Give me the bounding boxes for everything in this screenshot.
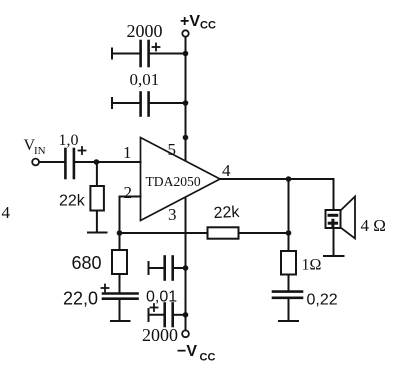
wire output node down to R3: [288, 179, 290, 251]
svg-text:CC: CC: [200, 20, 216, 32]
value 0,01: [146, 289, 177, 306]
svg-text:1: 1: [123, 143, 132, 162]
svg-text:22k: 22k: [59, 193, 86, 210]
value 22k: [59, 193, 86, 210]
wire C3 to pin1: [75, 161, 141, 163]
wire feedback right segment: [239, 232, 289, 234]
node junction dot rail/C6: [183, 265, 189, 271]
svg-text:−V: −V: [177, 343, 197, 360]
capacitor C6 0,01 (bottom): [149, 257, 186, 280]
net label -Vcc: [177, 343, 215, 364]
node junction dot output: [286, 176, 292, 182]
svg-text:0,22: 0,22: [307, 292, 338, 309]
value 0,01: [130, 70, 160, 89]
value 2000: [127, 21, 163, 41]
capacitor C5 22,0: [102, 285, 138, 321]
svg-text:+V: +V: [180, 13, 200, 30]
svg-text:680: 680: [72, 253, 102, 273]
pin 2 label: [124, 183, 133, 202]
node junction dot rail/C1: [183, 51, 189, 57]
node +Vcc terminal: [182, 30, 188, 36]
wire speaker to ground: [333, 228, 335, 256]
node junction dot input: [94, 159, 100, 165]
svg-text:IN: IN: [34, 145, 46, 157]
value 1 Ohm: [302, 257, 322, 274]
svg-text:3: 3: [168, 205, 177, 224]
speaker LS1: [326, 197, 356, 239]
stray page digit 4: [2, 203, 11, 222]
net label Vin: [24, 137, 46, 157]
resistor R2 22k (feedback): [208, 227, 239, 238]
value 680: [72, 253, 102, 273]
op-amp U1 TDA2050: [141, 138, 221, 221]
node Vin terminal: [32, 159, 39, 166]
svg-text:4: 4: [2, 203, 11, 222]
value 4 Ohm: [361, 216, 386, 235]
wire output down to speaker: [333, 179, 335, 210]
node junction dot rail/C7: [183, 312, 189, 318]
value 2000: [142, 325, 178, 345]
resistor R4 680: [112, 233, 127, 294]
capacitor C1 2000 (top electrolytic): [112, 41, 186, 66]
node junction dot feedback left: [117, 230, 123, 236]
capacitor C4 0,22: [273, 292, 302, 321]
svg-text:2000: 2000: [142, 325, 178, 345]
wire feedback left segment: [120, 232, 208, 234]
capacitor C3 1,0 (input): [65, 147, 85, 178]
value 22k: [213, 204, 241, 222]
pin 4 label: [222, 161, 231, 180]
capacitor C2 0.01 (top): [112, 93, 186, 116]
svg-text:4: 4: [222, 161, 231, 180]
wire pin2 stub: [120, 196, 141, 198]
svg-text:TDA2050: TDA2050: [146, 174, 201, 189]
net label +Vcc: [180, 13, 216, 32]
svg-text:22,0: 22,0: [63, 289, 98, 309]
node -Vcc terminal: [182, 330, 189, 337]
svg-text:4 Ω: 4 Ω: [361, 216, 386, 235]
value 22,0: [63, 289, 98, 309]
node junction dot rail/C2: [183, 100, 189, 106]
value 0,22: [307, 292, 338, 309]
wire R3 to C4: [288, 275, 290, 292]
svg-text:2000: 2000: [127, 21, 163, 41]
pin 1 label: [123, 143, 132, 162]
svg-text:2: 2: [124, 183, 133, 202]
value 1,0: [59, 132, 79, 149]
capacitor C7 2000 (bottom electrolytic): [149, 304, 186, 327]
wire +Vcc rail: [185, 37, 187, 161]
pin 5 label: [168, 140, 177, 159]
resistor R1 22k (input to ground): [90, 162, 104, 233]
ground (below speaker): [324, 255, 344, 257]
wire Vin to C3: [39, 161, 64, 163]
svg-text:CC: CC: [200, 352, 216, 364]
wire pin2 down to feedback node: [119, 197, 121, 234]
ground (below C5): [111, 320, 130, 322]
svg-text:0,01: 0,01: [130, 70, 160, 89]
wire pin3 / -Vcc rail: [185, 198, 187, 331]
ground (below C4): [279, 320, 298, 322]
resistor R3 1 Ohm: [281, 251, 296, 275]
node junction dot pin5: [183, 135, 189, 141]
svg-text:1,0: 1,0: [59, 132, 79, 149]
svg-text:22k: 22k: [213, 204, 241, 222]
svg-text:1Ω: 1Ω: [302, 257, 322, 274]
wire output: [220, 178, 334, 180]
pin 3 label: [168, 205, 177, 224]
ground (below R1): [88, 232, 107, 234]
node junction dot feedback right: [286, 230, 292, 236]
